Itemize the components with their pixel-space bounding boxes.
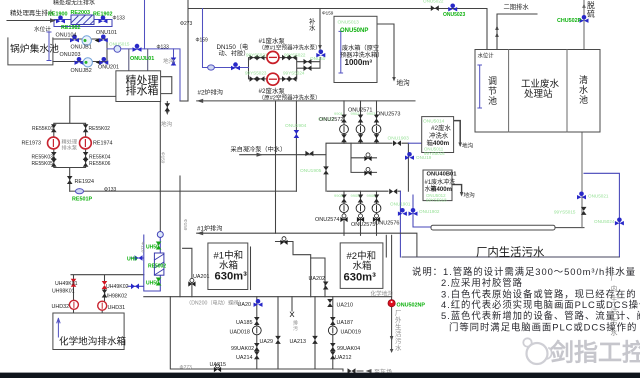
svg-text:处理站: 处理站 (524, 88, 553, 100)
waste pump1 outlet valves (282, 55, 290, 61)
svg-text:生: 生 (395, 322, 402, 331)
svg-text:9903: 9903 (367, 111, 377, 116)
svg-text:UA20: UA20 (238, 302, 252, 308)
sewage pipe tail (555, 227, 584, 229)
svg-text:UH98K01: UH98K01 (52, 289, 75, 295)
sensor dot phi133 (350, 127, 352, 129)
valve bushui blue (316, 50, 325, 58)
svg-text:99YS5023: 99YS5023 (245, 71, 267, 76)
arrow #2 ditch left (197, 99, 204, 103)
svg-text:池: 池 (488, 95, 497, 106)
notes block (412, 266, 640, 332)
wire UA210 column (332, 297, 334, 369)
svg-text:水: 水 (309, 23, 316, 32)
svg-text:ONU201: ONU201 (98, 65, 119, 71)
svg-text:内: 内 (611, 284, 618, 293)
svg-text:水箱400m: 水箱400m (425, 185, 452, 193)
svg-text:水: 水 (395, 343, 402, 352)
svg-text:生: 生 (611, 295, 618, 304)
arrow flush1 overflow (460, 192, 464, 197)
valve RE55K01 (51, 124, 57, 132)
svg-text:水位计: 水位计 (478, 52, 495, 60)
motor valve ONU5023 blue (448, 4, 457, 12)
pump RE1973 (48, 137, 60, 149)
svg-text:UH49K02: UH49K02 (106, 284, 129, 290)
arrow #1 ditch left (197, 231, 204, 235)
valve UA212 (330, 351, 336, 359)
svg-text:调: 调 (488, 76, 497, 86)
svg-text:99UAK04: 99UAK04 (337, 346, 360, 352)
svg-text:二期排水: 二期排水 (504, 2, 530, 11)
arrow to ash yard (366, 369, 372, 373)
chemical ditch drain tank (53, 313, 124, 350)
blue motor valve UA203 (254, 299, 263, 307)
svg-text:2.应采用衬胶管路: 2.应采用衬胶管路 (441, 277, 523, 288)
svg-text:活: 活 (395, 329, 402, 338)
matrix col3 bottom (374, 195, 380, 203)
svg-text:UA202: UA202 (309, 276, 325, 282)
svg-text:厂: 厂 (611, 274, 618, 282)
wires into chem box (74, 310, 103, 314)
svg-text:ONUJB1: ONUJB1 (71, 45, 92, 51)
svg-text:9906: 9906 (367, 193, 377, 198)
flush tank1 overflow (452, 185, 462, 195)
svg-text:ONU1903: ONU1903 (388, 136, 410, 142)
svg-text:#2废水: #2废水 (431, 123, 451, 132)
svg-text:Φ159: Φ159 (322, 11, 334, 16)
svg-text:锅炉集水池: 锅炉集水池 (10, 42, 59, 55)
industrial waste station big box (475, 50, 600, 133)
svg-text:ONU1901: ONU1901 (390, 202, 411, 207)
fine-treatment drain tank (116, 71, 161, 102)
svg-text:ONU502NP: ONU502NP (397, 302, 426, 308)
svg-text:UAD019: UAD019 (341, 330, 361, 336)
valve digou drop blue (171, 58, 177, 66)
wire blue right circuit (584, 173, 619, 257)
label right-edge vertical sewage (611, 274, 618, 337)
svg-text:（原#2空预器冲洗水泵）: （原#2空预器冲洗水泵） (259, 94, 321, 102)
svg-text:冲洗水: 冲洗水 (429, 131, 449, 140)
svg-text:外: 外 (395, 315, 402, 324)
wire UA213 column (314, 297, 316, 369)
valve RE1924 (67, 176, 73, 184)
boiler sump pool (open top) (8, 38, 53, 65)
svg-text:ONU2572: ONU2572 (319, 117, 343, 123)
flush water tank #2 400m3 (422, 117, 454, 153)
green valve UH upper (156, 242, 162, 250)
svg-text:RE55K05: RE55K05 (32, 161, 54, 167)
tri valve ONUJL01 (133, 44, 142, 52)
wire connector under drains (180, 100, 188, 102)
svg-text:ONU40B01: ONU40B01 (427, 172, 458, 178)
svg-text:精处理无压排水: 精处理无压排水 (53, 0, 95, 7)
wire beside tank1 (250, 247, 252, 290)
svg-text:ONU50NP: ONU50NP (340, 28, 368, 34)
wires into jingchuli tank (129, 49, 148, 71)
arrow flush2 overflow (458, 143, 462, 148)
bottom black bar (0, 373, 640, 378)
valve 99UAK02 (254, 343, 260, 351)
inlet arrow line (7, 20, 54, 22)
label changwai sewage vertical (395, 309, 402, 352)
svg-text:UH50: UH50 (146, 245, 159, 251)
matrix col2 bottom (358, 195, 364, 203)
svg-text:UHD32: UHD32 (52, 304, 70, 310)
wire paiwu stub (291, 297, 293, 311)
svg-text:3.白色代表原始设备或管路，现已经存在的: 3.白色代表原始设备或管路，现已经存在的 (441, 288, 637, 299)
wire condensate supply (240, 154, 326, 156)
svg-text:池: 池 (579, 94, 588, 105)
svg-text:UHD31: UHD31 (108, 305, 126, 311)
svg-text:630m³: 630m³ (215, 271, 248, 283)
svg-text:#2炉排沟: #2炉排沟 (198, 89, 223, 97)
wire treated drain blue (107, 49, 180, 101)
valve RE55K06 (83, 159, 89, 167)
svg-text:ONU5014: ONU5014 (423, 119, 445, 125)
wire from clear pool down (581, 132, 583, 228)
svg-text:UH5: UH5 (127, 257, 137, 263)
svg-text:地沟: 地沟 (462, 142, 474, 150)
svg-text:精处理: 精处理 (62, 138, 78, 146)
arrow bushui down (318, 45, 322, 50)
wire center vertical (275, 101, 277, 233)
wire digou drop (173, 49, 175, 64)
divider tiaojiechi (508, 50, 510, 133)
svg-text:Φ159: Φ159 (183, 219, 188, 231)
svg-text:ONU104: ONU104 (56, 33, 77, 39)
svg-text:水位计: 水位计 (34, 25, 51, 33)
valve UA187 (330, 317, 336, 325)
svg-text:99YS5018: 99YS5018 (426, 198, 447, 203)
arrow out-plant sewer (390, 336, 394, 353)
svg-text:活: 活 (611, 306, 618, 315)
valve UA29 (275, 336, 281, 344)
neutralization tank #1 (208, 243, 248, 290)
wire RE discharge (70, 190, 297, 192)
wire tuoliu line (583, 0, 585, 50)
wire UA201 drop (183, 248, 192, 296)
blue valve on clear-pool line (577, 192, 586, 200)
svg-text:99UAK02: 99UAK02 (231, 346, 254, 352)
svg-text:9904: 9904 (334, 193, 344, 198)
motor valve CHU502P on tuoliu (580, 15, 589, 23)
svg-text:Φ273: Φ273 (180, 21, 193, 27)
matrix col3 top (374, 115, 380, 123)
svg-text:UA212: UA212 (335, 355, 351, 361)
svg-text:Φ133: Φ133 (157, 45, 170, 51)
svg-text:99YS5022: 99YS5022 (284, 52, 306, 57)
wire bottom manifold (170, 297, 363, 371)
wire from top at x144 blue (144, 0, 146, 49)
black valve UH98K02 (102, 290, 108, 298)
matrix inner ladder (351, 143, 377, 172)
svg-text:9902: 9902 (351, 111, 361, 116)
red dot ONU502NP (388, 300, 395, 307)
svg-text:9905: 9905 (351, 193, 361, 198)
svg-text:RE1924: RE1924 (75, 179, 94, 185)
svg-text:UA213: UA213 (290, 339, 306, 345)
discharge header valves (304, 59, 312, 65)
svg-text:RE1974: RE1974 (93, 141, 112, 147)
wire UA202 drop (311, 258, 325, 297)
UH loop top circle (157, 232, 163, 238)
svg-text:UH50: UH50 (146, 281, 159, 287)
blue valve UH left lower (131, 284, 139, 290)
hatch lines ion exchanger (154, 254, 164, 275)
wire top header (188, 0, 487, 101)
boiler pump suction valves blue (70, 35, 79, 43)
svg-text:UA214: UA214 (236, 355, 252, 361)
matrix col1 bottom (341, 195, 347, 203)
check arrow JB2 (96, 60, 101, 64)
green valve UH lower (156, 278, 162, 286)
matrix columns upper (344, 101, 377, 143)
pump UHD32 (69, 300, 78, 309)
matrix col1 top: valve, meter, valve (341, 115, 347, 123)
level gauge tiaojiechi (478, 65, 482, 108)
svg-text:ONU2574: ONU2574 (315, 217, 339, 223)
matrix manifold1 valve (393, 140, 401, 146)
ion exchanger hatched column (154, 253, 164, 275)
svg-text:RE55K06: RE55K06 (89, 161, 111, 167)
level gauge waste tank (339, 31, 343, 73)
svg-text:#2废水泵: #2废水泵 (259, 86, 286, 95)
svg-text:ONUJL01: ONUJL01 (130, 56, 154, 62)
arrow digou drop (172, 62, 176, 67)
svg-text:节: 节 (488, 86, 497, 96)
arrow tuoliu up (582, 3, 586, 8)
wire bushui riser (319, 9, 321, 52)
svg-text:废水箱（原空: 废水箱（原空 (342, 44, 379, 52)
blue valve right circuit (615, 218, 624, 226)
pump UHD31 (98, 301, 107, 310)
wire drop to UH loop (159, 102, 161, 233)
svg-text:ONU101: ONU101 (96, 30, 117, 36)
svg-text:Φ133: Φ133 (104, 187, 117, 193)
svg-text:（DN200（电动）蝶阀）: （DN200（电动）蝶阀） (186, 299, 244, 307)
pump ONUJB1 (82, 36, 91, 45)
svg-text:Φ110: Φ110 (141, 242, 146, 253)
wire #1 furnace ditch (197, 233, 417, 257)
wire UA185 column (256, 297, 258, 369)
svg-text:RE55K02: RE55K02 (89, 126, 111, 132)
wire pump manifold (249, 57, 321, 79)
svg-text:Φ159: Φ159 (161, 152, 166, 164)
wire branch to tank1 (276, 242, 311, 297)
svg-text:水箱: 水箱 (353, 260, 372, 272)
logo circle (527, 343, 548, 364)
svg-text:99YS5024: 99YS5024 (283, 71, 305, 76)
wire UH header (71, 275, 144, 301)
svg-text:厂内生活污水: 厂内生活污水 (476, 245, 545, 259)
svg-text:ONU5022: ONU5022 (423, 0, 444, 4)
wire blue drop B (413, 195, 431, 227)
boiler sump pump branches (53, 39, 107, 62)
svg-text:采自凝冷泵（中水）: 采自凝冷泵（中水） (231, 146, 287, 154)
RE pump group piping (54, 96, 116, 191)
svg-text:ONU50: ONU50 (310, 56, 326, 61)
red valve UH49K01 (71, 279, 77, 287)
pump ONUJB2 (83, 58, 92, 67)
UH blue loop (128, 232, 160, 291)
svg-text:UAD018: UAD018 (230, 330, 250, 336)
valve matrix frame (326, 143, 408, 191)
wire long bottom collector (402, 256, 619, 258)
svg-text:UA187: UA187 (337, 320, 353, 326)
svg-text:清: 清 (579, 74, 588, 85)
valve 99 on clear-pool line (581, 207, 587, 215)
waste pump2 inlet valves (250, 76, 258, 82)
valve UA185 (254, 317, 260, 325)
svg-text:污: 污 (395, 337, 402, 345)
svg-text:水: 水 (611, 328, 618, 337)
svg-text:脱: 脱 (587, 0, 595, 10)
valve RE55K05 (51, 159, 57, 167)
arrow tank drain (166, 111, 170, 116)
blue motor valves pair (398, 208, 407, 216)
wire #2 furnace ditch (197, 100, 415, 102)
svg-text:地沟: 地沟 (397, 78, 411, 87)
svg-text:ONU5024: ONU5024 (594, 219, 615, 224)
svg-text:说明：1.管路的设计需满足300～500m³/h排水量: 说明：1.管路的设计需满足300～500m³/h排水量 (412, 266, 636, 277)
svg-text:动、衬胶）: 动、衬胶） (219, 50, 250, 58)
svg-text:Φ273: Φ273 (180, 365, 193, 371)
sensor ball on suction line (208, 65, 215, 70)
svg-text:RE1982: RE1982 (61, 25, 80, 31)
heat exchanger RE (71, 15, 94, 25)
svg-text:UA185: UA185 (236, 320, 252, 326)
svg-text:UA29: UA29 (260, 339, 274, 345)
svg-text:排水泵: 排水泵 (62, 144, 78, 152)
valve under tank drain (165, 103, 171, 111)
svg-text:RE2003: RE2003 (71, 10, 90, 16)
svg-text:630m³: 630m³ (344, 272, 377, 284)
recirculation stubs (161, 77, 172, 94)
meter UAD019 (328, 326, 337, 335)
valve UA214 (254, 351, 260, 359)
svg-text:ONU1904: ONU1904 (285, 123, 307, 129)
svg-text:ONUJB2: ONUJB2 (71, 68, 92, 74)
svg-text:99YS5015: 99YS5015 (554, 210, 576, 215)
tri valve suction blue (231, 62, 240, 70)
svg-text:ONU5023: ONU5023 (443, 12, 465, 18)
svg-text:#1废水泵: #1废水泵 (259, 36, 286, 45)
flush water tank #1 ONU40B01 (423, 170, 452, 201)
svg-text:UA201: UA201 (193, 274, 209, 280)
svg-text:Φ159: Φ159 (196, 38, 209, 44)
matrix columns lower (344, 191, 377, 235)
svg-text:RE5002: RE5002 (148, 264, 166, 270)
valve RE55K04 (83, 152, 89, 160)
boiler pump discharge valves blue (99, 35, 108, 43)
svg-text:99YS5021: 99YS5021 (246, 52, 268, 57)
svg-text:RE55K04: RE55K04 (89, 155, 111, 161)
valve tank1 feed branch (280, 237, 287, 245)
pump #1 waste red (267, 51, 279, 63)
valve RE55K02 (83, 124, 89, 132)
level gauge boiler sump (47, 31, 482, 337)
divider qingshuichi (566, 50, 568, 133)
check arrow JB1 (95, 39, 100, 43)
blue valves at heat exchanger (56, 16, 65, 24)
arrow erqi line small (495, 32, 499, 37)
valve on condensate line (305, 151, 313, 157)
svg-text:1000m³: 1000m³ (345, 58, 373, 67)
pump RE1974 (80, 137, 92, 149)
svg-text:污: 污 (293, 325, 298, 332)
wire UA29 column (277, 297, 279, 369)
svg-text:UH49K01: UH49K01 (55, 281, 78, 287)
sensor RE501P blue ball (76, 189, 84, 194)
svg-text:地沟: 地沟 (464, 191, 476, 199)
svg-text:UA215: UA215 (210, 362, 226, 368)
svg-text:RE1900: RE1900 (48, 11, 67, 17)
arrow erqi up (495, 25, 499, 30)
svg-text:厂: 厂 (395, 309, 401, 317)
valve 99UAK04 (330, 343, 336, 351)
svg-text:UH98K02: UH98K02 (105, 294, 128, 300)
svg-text:地沟: 地沟 (161, 120, 173, 128)
matrix col2 top (358, 115, 364, 123)
valve UA201 (188, 278, 195, 286)
svg-text:化学地沟排水箱: 化学地沟排水箱 (59, 336, 127, 348)
red valve UH49K02 (102, 281, 108, 289)
waste water tank 1000m3 (334, 16, 377, 82)
svg-text:剑指工控: 剑指工控 (549, 339, 640, 367)
svg-text:RE501P: RE501P (72, 196, 92, 202)
svg-text:#1废水冲洗: #1废水冲洗 (425, 178, 456, 186)
level gauge chem box (57, 318, 60, 337)
svg-text:（原#1空预器冲洗水泵）: （原#1空预器冲洗水泵） (259, 43, 321, 51)
flow meter on blue line (114, 46, 121, 53)
tank drain valve line (166, 102, 168, 114)
wire chem ditch (144, 296, 392, 298)
wire pump suction blue (203, 9, 249, 68)
svg-text:ONU2573: ONU2573 (376, 112, 400, 118)
valve ONU on re-discharge line (294, 130, 300, 138)
matrix manifold2 valve (389, 189, 397, 195)
blue valve to flush2 (405, 152, 414, 160)
svg-text:ONU5015: ONU5015 (109, 42, 130, 47)
arrow waste tank drain (392, 77, 396, 82)
svg-text:RE55K01: RE55K01 (32, 126, 54, 132)
valve RE55K03 (51, 152, 57, 160)
wire drop phi159 (179, 176, 181, 297)
svg-text:排水箱: 排水箱 (126, 83, 159, 97)
wire out-plant sewer (391, 235, 393, 351)
valve to ash yard (348, 368, 356, 374)
svg-text:ONU203: ONU203 (60, 52, 81, 58)
svg-text:ONU5013: ONU5013 (338, 20, 360, 26)
svg-text:9901: 9901 (334, 111, 344, 116)
arrow condensate (257, 153, 264, 157)
svg-text:ONU1905: ONU1905 (300, 168, 322, 174)
wire beside tank2 (385, 235, 387, 257)
wire waste tank box drain (377, 24, 394, 79)
valve on top header ONU (431, 5, 439, 11)
meter UAD018 (252, 326, 261, 335)
svg-text:RE1902: RE1902 (93, 11, 112, 17)
flush tank2 overflow (454, 121, 461, 145)
valve UA215 (214, 364, 221, 372)
svg-text:地沟: 地沟 (163, 57, 175, 65)
svg-text:Φ133: Φ133 (113, 16, 126, 22)
waste pump1 inlet valves (250, 55, 258, 61)
svg-text:ONU1902: ONU1902 (419, 209, 440, 214)
svg-text:CHU502P: CHU502P (557, 18, 582, 24)
wire ONU valve drop (295, 101, 297, 191)
svg-text:ONU2576: ONU2576 (375, 221, 399, 227)
